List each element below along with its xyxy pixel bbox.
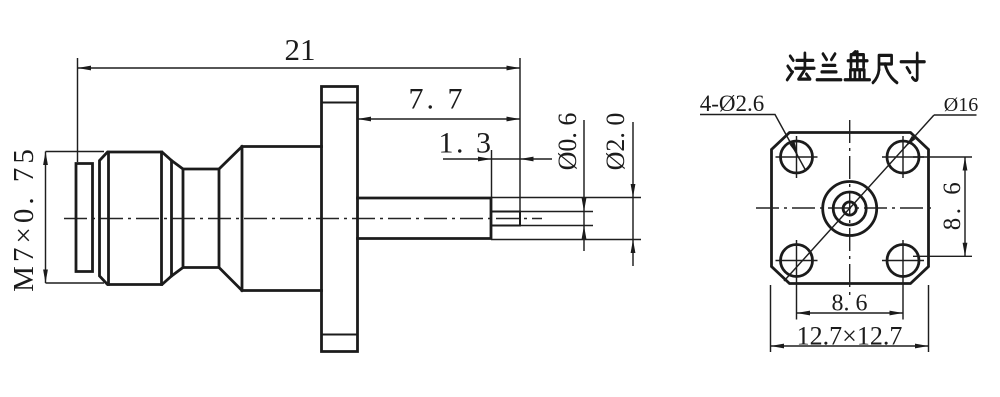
dim M7x0.75 extension lines <box>46 152 105 284</box>
char cun <box>901 53 924 80</box>
centerline axis <box>64 218 542 220</box>
nut facet line right <box>160 152 163 285</box>
cone transition <box>219 147 242 291</box>
dim 12.7x12.7 extension lines <box>771 285 929 352</box>
dim M7x0.75 line <box>45 152 47 284</box>
dim 1.3 extension line <box>491 150 493 197</box>
dim 8.6 right arrows <box>963 157 968 171</box>
title 法兰盘尺寸 (hand-drawn CJK glyphs) <box>787 52 924 83</box>
dim 7.7 arrows <box>358 117 372 122</box>
hole top-right <box>887 141 919 173</box>
hole top-left <box>781 141 813 173</box>
shoulder step after nut <box>172 161 184 277</box>
neck section <box>183 169 219 268</box>
shaft Ø2.0 <box>358 198 492 239</box>
dim 8.6 right extension lines <box>913 157 972 256</box>
dim 8.6 bottom extension lines <box>797 240 904 320</box>
dim 12.7x12.7 line <box>771 345 929 347</box>
flange corner lines <box>322 103 358 335</box>
dim Ø2.0 extension lines <box>491 198 641 240</box>
svg-text:8. 6: 8. 6 <box>832 291 868 317</box>
svg-text:7. 7: 7. 7 <box>409 83 466 116</box>
dim Ø2.0 arrows (outside) <box>631 184 636 198</box>
hole bottom-left <box>781 245 813 277</box>
flange square with chamfered corners <box>772 133 929 284</box>
char lan <box>817 54 841 80</box>
nut facet line left <box>107 152 110 285</box>
dim M7x0.75 arrows <box>43 152 48 166</box>
dim 21 line <box>78 67 521 69</box>
dim Ø2.0 line <box>632 122 634 266</box>
dim 8.6 bottom line <box>797 312 904 314</box>
char pan <box>845 52 870 80</box>
svg-text:M7×0. 75: M7×0. 75 <box>8 145 40 292</box>
center connector circles <box>823 182 877 236</box>
hex nut body outline with chamfered corners <box>100 152 172 285</box>
svg-text:21: 21 <box>285 32 316 67</box>
pin Ø0.6 <box>491 212 520 226</box>
dim Ø0.6 arrows (outside) <box>582 198 587 212</box>
washer (left end disc) <box>76 164 93 272</box>
dim 1.3 line <box>443 158 552 160</box>
svg-text:Ø16: Ø16 <box>944 94 978 116</box>
dim 7.7 line <box>358 118 521 120</box>
svg-text:8. 6: 8. 6 <box>939 179 966 231</box>
dim 1.3 arrows (outside) <box>478 157 492 162</box>
svg-text:4-Ø2.6: 4-Ø2.6 <box>700 91 765 116</box>
flange centerline horizontal <box>756 207 932 209</box>
dim 21 arrows <box>78 66 92 71</box>
dim 21 extension lines <box>78 58 521 212</box>
char chi <box>873 55 897 82</box>
svg-text:1. 3: 1. 3 <box>439 127 494 160</box>
char fa <box>787 53 814 80</box>
main body cylinder <box>242 147 322 291</box>
flange centerline vertical <box>849 120 851 298</box>
flange plate (side view) <box>322 87 358 352</box>
svg-text:Ø0. 6: Ø0. 6 <box>553 113 582 171</box>
svg-text:Ø2. 0: Ø2. 0 <box>601 113 630 171</box>
dim Ø0.6 extension lines <box>520 212 593 226</box>
dim 8.6 bottom arrows <box>797 311 811 316</box>
hole bottom-right <box>887 245 919 277</box>
dim 12.7x12.7 arrows <box>771 344 785 349</box>
diagonal leader line across flange <box>784 115 934 281</box>
dim 8.6 right line <box>964 157 966 256</box>
svg-text:12.7×12.7: 12.7×12.7 <box>797 322 903 351</box>
dim Ø0.6 line <box>583 120 585 251</box>
